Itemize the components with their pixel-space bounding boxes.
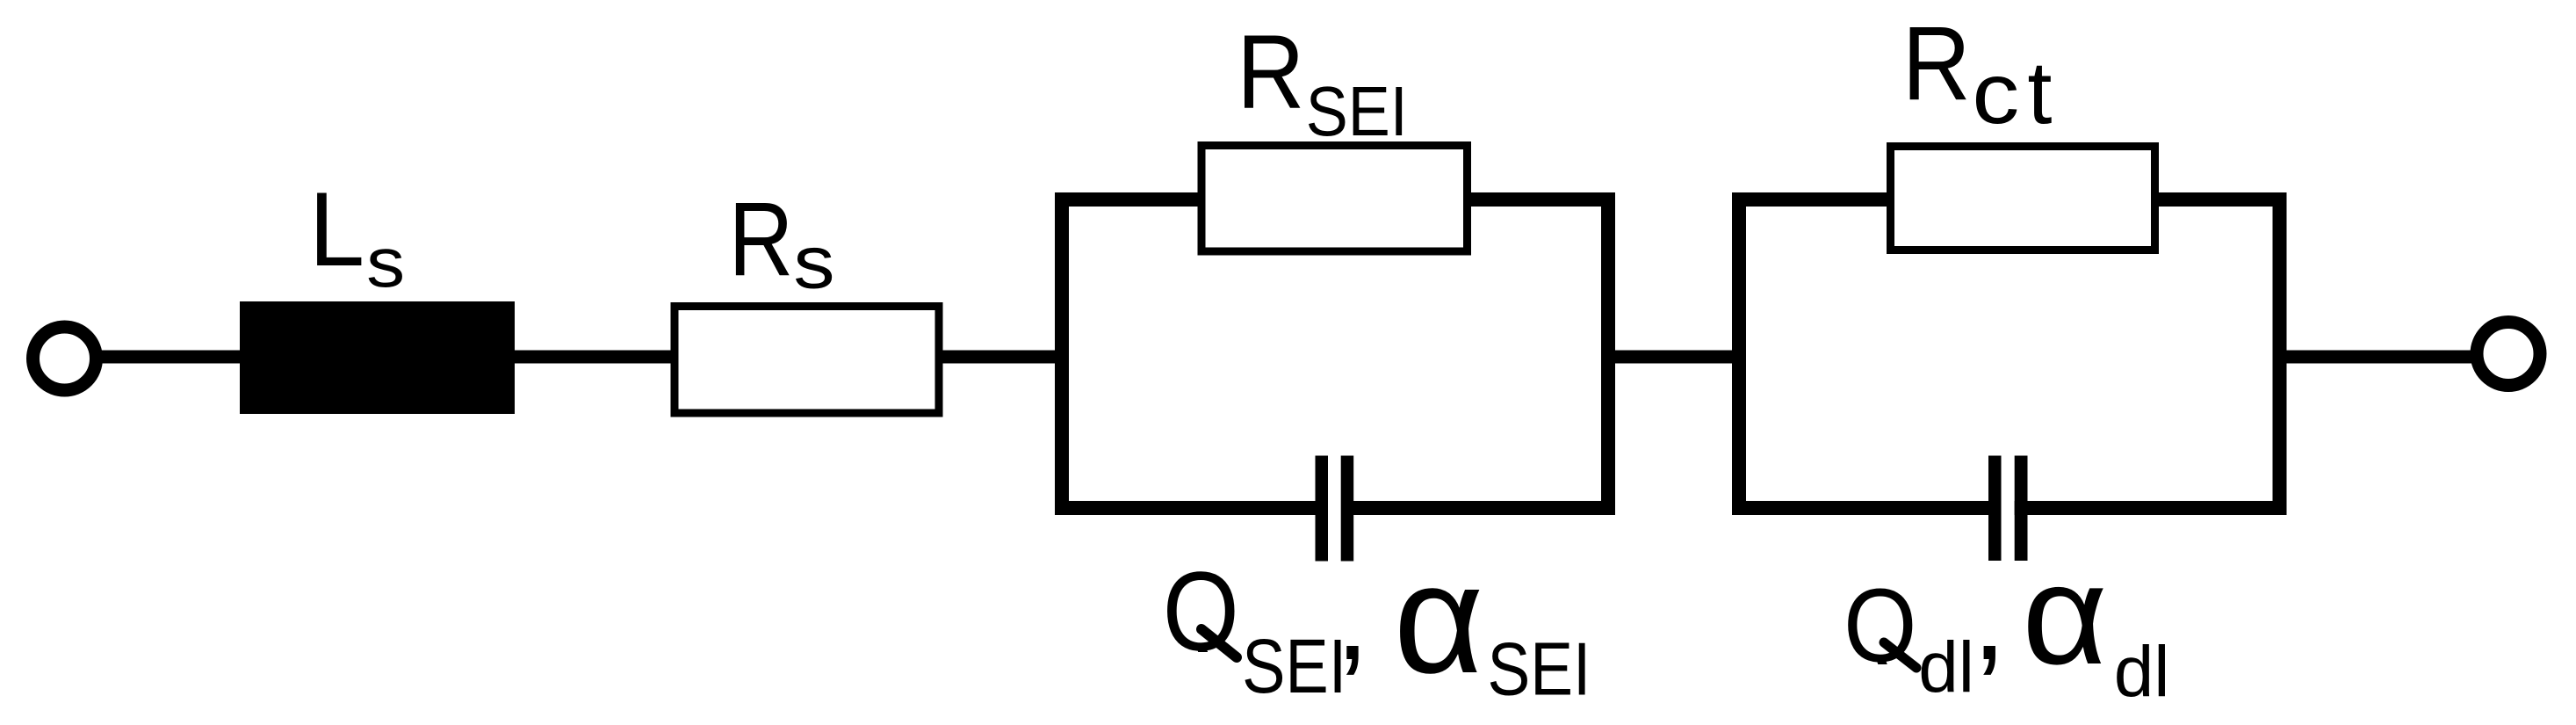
parallel block 1 loop (1062, 199, 1608, 508)
capacitor QSEI gap (1328, 496, 1342, 520)
svg-text:SEI: SEI (1306, 73, 1408, 151)
svg-text:s: s (793, 221, 834, 305)
svg-text:SEI: SEI (1488, 627, 1591, 710)
svg-text:c: c (1972, 46, 2019, 141)
resistor RSEI (open box on top branch) (1201, 146, 1468, 252)
parallel block 2 loop (1739, 199, 2280, 508)
label Rs (729, 179, 835, 304)
resistor Rct (open box on top branch) (1891, 147, 2155, 250)
svg-text:SEI: SEI (1242, 624, 1346, 709)
svg-text:α: α (2022, 535, 2107, 694)
wire between blocks (1612, 351, 1737, 364)
capacitor QSEI plates (1316, 456, 1329, 562)
label RSEI (1237, 13, 1407, 151)
svg-text:α: α (1394, 531, 1484, 706)
capacitor Qdl gap (2002, 496, 2015, 520)
svg-text:R: R (1902, 5, 1971, 122)
right terminal (2477, 323, 2540, 386)
left terminal (33, 327, 97, 390)
svg-text:dl: dl (2114, 632, 2170, 712)
inductor Ls (filled box) (240, 301, 515, 414)
svg-text:R: R (1237, 13, 1304, 131)
label Qdl, alphadl (1844, 535, 2169, 712)
resistor Rs (open box) (675, 307, 939, 414)
wire from left terminal to inductor (97, 351, 244, 364)
label QSEI, alphaSEI (1163, 531, 1591, 711)
svg-text:,: , (1973, 547, 2007, 685)
trim Q1 tail (1187, 652, 1231, 675)
wire from block 2 to right terminal (2279, 351, 2471, 364)
trim Q2 tail (1867, 664, 1916, 685)
label Rct (1902, 5, 2053, 142)
svg-text:t: t (2027, 44, 2052, 142)
capacitor Qdl plates (1988, 456, 2002, 562)
svg-text:,: , (1335, 547, 1369, 685)
svg-text:R: R (729, 179, 794, 297)
wire from inductor to Rs (515, 351, 675, 364)
wire from Rs to block 1 (939, 351, 1065, 364)
svg-text:dl: dl (1918, 627, 1974, 707)
svg-text:s: s (366, 223, 405, 301)
svg-text:L: L (309, 170, 364, 287)
label Ls (309, 170, 405, 301)
